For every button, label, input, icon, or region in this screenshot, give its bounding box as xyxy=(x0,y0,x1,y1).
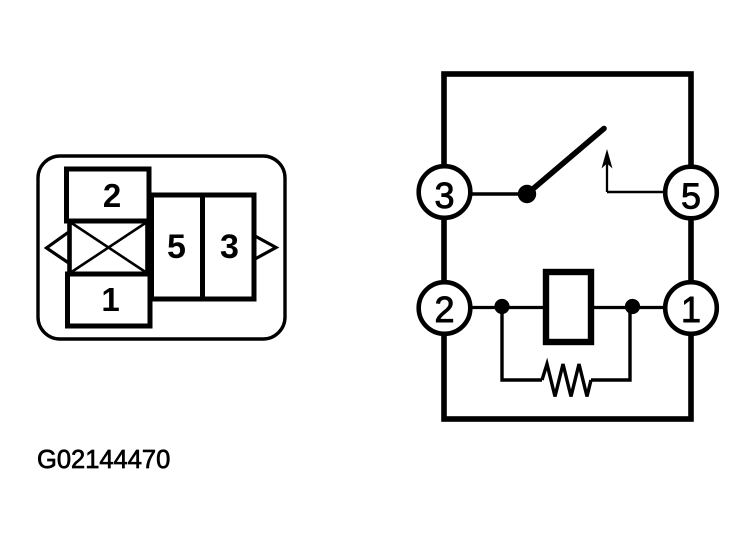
resistor left branch wire xyxy=(502,310,542,380)
pin cavity 1 xyxy=(68,274,151,326)
svg-text:1: 1 xyxy=(101,281,119,318)
right lock tab arrow xyxy=(255,236,276,259)
svg-text:2: 2 xyxy=(103,177,121,214)
actuation arrow xyxy=(602,149,613,192)
junction dot right xyxy=(625,299,640,314)
resistor right branch wire xyxy=(591,310,630,380)
terminal 2 xyxy=(419,282,471,334)
svg-text:G02144470: G02144470 xyxy=(37,446,170,474)
svg-text:5: 5 xyxy=(167,228,186,266)
left lock tab arrow xyxy=(47,233,69,263)
relay case outline xyxy=(444,74,691,419)
wire coil to terminal 1 xyxy=(591,306,676,309)
switch pivot junction xyxy=(518,185,536,203)
svg-text:3: 3 xyxy=(434,175,454,216)
figure ID label G02144470 xyxy=(37,446,170,474)
pin cavity 3 xyxy=(203,195,255,299)
svg-text:3: 3 xyxy=(220,228,239,266)
resistor zigzag xyxy=(542,364,591,397)
terminal 5 xyxy=(665,167,717,219)
wire terminal 2 to coil xyxy=(460,306,546,309)
switch blade xyxy=(527,129,604,195)
svg-text:1: 1 xyxy=(681,289,701,330)
terminal 3 xyxy=(419,166,471,218)
wire arrow corner to terminal 5 xyxy=(607,191,665,194)
terminal 1 xyxy=(665,282,717,334)
connector body outline xyxy=(38,156,285,339)
wire terminal 3 to switch pivot xyxy=(460,192,527,196)
pin cavity 5 xyxy=(152,195,203,299)
junction dot left xyxy=(494,299,509,314)
svg-text:5: 5 xyxy=(681,176,701,217)
svg-text:2: 2 xyxy=(434,289,454,330)
keyway crossed cavity xyxy=(70,221,148,274)
coil xyxy=(546,272,591,342)
pin cavity 2 xyxy=(67,169,150,221)
